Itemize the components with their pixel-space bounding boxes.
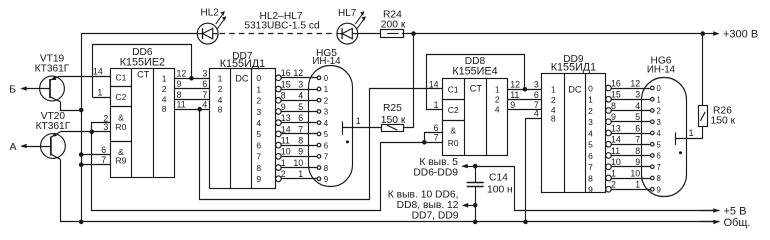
svg-text:1: 1 bbox=[635, 180, 640, 190]
svg-text:7: 7 bbox=[657, 163, 661, 172]
node bbox=[189, 76, 194, 81]
svg-text:0: 0 bbox=[588, 83, 593, 93]
svg-text:7: 7 bbox=[434, 133, 439, 143]
svg-text:1: 1 bbox=[689, 128, 694, 138]
svg-text:C14: C14 bbox=[489, 172, 508, 183]
svg-text:DC: DC bbox=[568, 85, 582, 95]
power +300 V bbox=[703, 33, 719, 35]
IC DD8 K155IE4 box bbox=[443, 79, 508, 156]
node bbox=[473, 220, 478, 225]
svg-text:DC: DC bbox=[235, 74, 249, 84]
svg-text:4: 4 bbox=[495, 105, 500, 115]
svg-text:5: 5 bbox=[657, 140, 662, 149]
HG6 anode bbox=[675, 132, 677, 145]
svg-text:R0: R0 bbox=[115, 122, 126, 132]
svg-text:7: 7 bbox=[256, 152, 261, 162]
svg-text:1: 1 bbox=[324, 85, 328, 94]
svg-text:12: 12 bbox=[293, 68, 303, 78]
svg-text:C2: C2 bbox=[448, 105, 459, 115]
transistor VT20 bbox=[41, 132, 66, 160]
node bbox=[523, 87, 528, 92]
wire VT20 emitter to DD6 R0 bbox=[60, 131, 110, 133]
svg-text:2: 2 bbox=[256, 96, 261, 106]
IC DD9 K155ID1 box bbox=[542, 74, 606, 193]
annotation to pin 5 DD6-DD9 bbox=[463, 166, 476, 168]
svg-text:3: 3 bbox=[657, 118, 661, 127]
svg-text:C2: C2 bbox=[115, 92, 126, 102]
svg-text:14: 14 bbox=[93, 67, 103, 77]
node +300V junction R26 bbox=[700, 31, 705, 36]
svg-text:4: 4 bbox=[218, 95, 223, 105]
svg-text:Б: Б bbox=[9, 83, 16, 95]
svg-text:3: 3 bbox=[635, 90, 640, 100]
svg-text:+300 В: +300 В bbox=[723, 28, 758, 40]
wire DD6 pin2 branch bbox=[92, 123, 111, 132]
svg-text:5: 5 bbox=[256, 129, 261, 139]
wire DD6 R9 pin7 bbox=[81, 164, 110, 166]
svg-text:6: 6 bbox=[256, 140, 261, 150]
svg-text:9: 9 bbox=[324, 175, 328, 184]
svg-text:16: 16 bbox=[611, 78, 621, 88]
wire DD8 outputs to DD9 inputs bbox=[508, 89, 541, 91]
svg-text:КТ361Г: КТ361Г bbox=[36, 121, 71, 132]
wire bbox=[402, 33, 703, 35]
svg-text:4: 4 bbox=[635, 101, 640, 111]
port B bbox=[22, 88, 51, 90]
svg-text:4: 4 bbox=[324, 119, 329, 128]
svg-text:8: 8 bbox=[162, 104, 167, 114]
nixie tube HG6 IN-14 envelope bbox=[642, 78, 687, 197]
svg-text:14: 14 bbox=[281, 124, 291, 134]
svg-text:9: 9 bbox=[298, 147, 303, 157]
svg-text:1: 1 bbox=[434, 100, 439, 110]
svg-text:3: 3 bbox=[202, 69, 207, 79]
svg-text:К155ИЕ2: К155ИЕ2 bbox=[120, 56, 165, 68]
svg-text:10: 10 bbox=[630, 168, 640, 178]
svg-text:А: А bbox=[9, 141, 16, 153]
node bbox=[197, 107, 202, 112]
nixie tube HG5 IN-14 envelope bbox=[309, 66, 353, 187]
node bbox=[523, 220, 528, 225]
svg-text:DD7, DD9: DD7, DD9 bbox=[412, 210, 459, 221]
svg-text:&: & bbox=[450, 126, 456, 136]
LED HL2 bbox=[197, 11, 226, 44]
wire VT19 collector bbox=[61, 102, 82, 111]
svg-text:7: 7 bbox=[298, 124, 303, 134]
HG6 decimal point cathode bbox=[679, 151, 682, 154]
svg-text:4: 4 bbox=[256, 118, 261, 128]
svg-text:14: 14 bbox=[611, 135, 621, 145]
svg-text:4: 4 bbox=[162, 95, 167, 105]
svg-text:4: 4 bbox=[588, 128, 593, 138]
svg-text:1: 1 bbox=[611, 168, 616, 178]
IC DD6 K155IE2 box bbox=[111, 69, 175, 178]
svg-text:8: 8 bbox=[551, 113, 556, 123]
wire VT20 collector to common bbox=[61, 159, 720, 221]
svg-text:3: 3 bbox=[256, 107, 261, 117]
svg-text:0: 0 bbox=[657, 84, 662, 93]
svg-text:К выв. 5: К выв. 5 bbox=[419, 157, 458, 168]
svg-text:6: 6 bbox=[298, 113, 303, 123]
svg-text:0: 0 bbox=[256, 73, 261, 83]
svg-text:1: 1 bbox=[218, 74, 223, 84]
svg-text:8: 8 bbox=[324, 164, 328, 173]
svg-text:5: 5 bbox=[635, 112, 640, 122]
svg-text:1: 1 bbox=[281, 158, 286, 168]
svg-text:2: 2 bbox=[495, 95, 500, 105]
svg-text:5313UBC-1.5 cd: 5313UBC-1.5 cd bbox=[244, 20, 320, 31]
svg-text:Общ.: Общ. bbox=[724, 217, 751, 229]
svg-text:К155ИЕ4: К155ИЕ4 bbox=[452, 66, 497, 78]
svg-text:7: 7 bbox=[588, 162, 593, 172]
svg-text:+5 В: +5 В bbox=[724, 205, 747, 217]
svg-text:6: 6 bbox=[534, 90, 539, 100]
svg-text:2: 2 bbox=[551, 95, 556, 105]
wire HG6 anode to R26 bbox=[702, 127, 704, 139]
wire R26 to +300 bbox=[702, 34, 704, 106]
svg-text:100 н: 100 н bbox=[487, 184, 513, 195]
svg-text:CT: CT bbox=[470, 84, 483, 94]
svg-text:12: 12 bbox=[630, 78, 640, 88]
svg-text:11: 11 bbox=[281, 136, 290, 146]
node +300V junction R24 bbox=[411, 31, 416, 36]
svg-text:2: 2 bbox=[218, 84, 223, 94]
wire (dashed HL2...HL7) bbox=[220, 33, 336, 35]
wire reset line to DD8 R0 bbox=[92, 132, 443, 211]
svg-text:1: 1 bbox=[588, 95, 593, 105]
svg-text:2: 2 bbox=[588, 106, 593, 116]
svg-text:1: 1 bbox=[657, 95, 661, 104]
svg-text:6: 6 bbox=[324, 141, 328, 150]
svg-text:9: 9 bbox=[281, 102, 286, 112]
svg-text:200 к: 200 к bbox=[381, 20, 406, 31]
svg-text:16: 16 bbox=[281, 68, 291, 78]
node bbox=[422, 140, 427, 145]
svg-text:1: 1 bbox=[162, 73, 167, 83]
wire bbox=[81, 33, 197, 35]
svg-text:6: 6 bbox=[657, 152, 661, 161]
svg-text:8: 8 bbox=[298, 136, 303, 146]
svg-text:8: 8 bbox=[635, 146, 640, 156]
power Obshch (common) arrow bbox=[700, 221, 719, 223]
svg-text:DD8, выв. 12: DD8, выв. 12 bbox=[397, 200, 459, 211]
svg-text:13: 13 bbox=[281, 113, 291, 123]
svg-text:4: 4 bbox=[202, 100, 207, 110]
svg-text:7: 7 bbox=[101, 155, 106, 165]
svg-text:1: 1 bbox=[356, 116, 361, 126]
annotation to pins 10/12 (ground pins) bbox=[463, 205, 475, 207]
wire carry DD6 pin11 to DD8 pin14 bbox=[200, 89, 443, 200]
svg-text:12: 12 bbox=[510, 80, 520, 90]
node bbox=[79, 220, 84, 225]
svg-text:10: 10 bbox=[611, 157, 621, 167]
wire DD8 pin6 stub bbox=[425, 133, 443, 143]
svg-text:8: 8 bbox=[657, 174, 661, 183]
svg-text:7: 7 bbox=[635, 135, 640, 145]
svg-text:13: 13 bbox=[611, 123, 621, 133]
power +5 V arrow bbox=[700, 210, 719, 212]
port A bbox=[22, 146, 51, 148]
svg-text:ИН-14: ИН-14 bbox=[312, 56, 341, 67]
svg-text:11: 11 bbox=[177, 100, 186, 110]
svg-text:4: 4 bbox=[298, 91, 303, 101]
svg-text:HL7: HL7 bbox=[338, 8, 357, 19]
svg-text:R25: R25 bbox=[383, 103, 402, 114]
svg-text:8: 8 bbox=[256, 163, 261, 173]
svg-text:10: 10 bbox=[293, 158, 303, 168]
svg-text:8: 8 bbox=[177, 90, 182, 100]
svg-text:7: 7 bbox=[324, 153, 328, 162]
svg-text:К выв. 10 DD6,: К выв. 10 DD6, bbox=[388, 189, 459, 200]
svg-text:9: 9 bbox=[588, 185, 593, 195]
svg-text:4: 4 bbox=[534, 109, 539, 119]
svg-text:C1: C1 bbox=[448, 84, 459, 94]
svg-text:11: 11 bbox=[510, 90, 519, 100]
svg-text:5: 5 bbox=[588, 140, 593, 150]
svg-text:10: 10 bbox=[281, 147, 291, 157]
svg-text:15: 15 bbox=[611, 90, 621, 100]
svg-text:14: 14 bbox=[429, 79, 439, 89]
svg-text:9: 9 bbox=[611, 112, 616, 122]
svg-text:9: 9 bbox=[510, 100, 515, 110]
svg-text:3: 3 bbox=[534, 80, 539, 90]
wire DD6 feedback loop out1 to C2 bbox=[93, 45, 192, 98]
svg-text:8: 8 bbox=[281, 91, 286, 101]
svg-text:6: 6 bbox=[434, 123, 439, 133]
capacitor C14 bbox=[475, 166, 477, 182]
IC DD7 K155ID1 box bbox=[210, 69, 276, 189]
svg-text:9: 9 bbox=[635, 157, 640, 167]
svg-text:12: 12 bbox=[177, 69, 187, 79]
wire bbox=[358, 33, 381, 35]
svg-text:0: 0 bbox=[324, 74, 329, 83]
svg-text:C1: C1 bbox=[115, 72, 126, 82]
svg-text:1: 1 bbox=[97, 87, 102, 97]
svg-text:R9: R9 bbox=[115, 156, 126, 166]
svg-text:R0: R0 bbox=[448, 138, 459, 148]
svg-text:1: 1 bbox=[256, 84, 261, 94]
svg-text:7: 7 bbox=[202, 90, 207, 100]
svg-text:DD6-DD9: DD6-DD9 bbox=[413, 168, 458, 179]
svg-text:8: 8 bbox=[611, 101, 616, 111]
wire R25 to +300 bbox=[403, 34, 413, 128]
node bbox=[79, 108, 84, 113]
svg-text:3: 3 bbox=[298, 79, 303, 89]
svg-text:4: 4 bbox=[657, 129, 662, 138]
resistor R24 bbox=[381, 30, 404, 38]
svg-text:6: 6 bbox=[588, 151, 593, 161]
svg-text:9: 9 bbox=[177, 79, 182, 89]
svg-text:9: 9 bbox=[657, 185, 661, 194]
svg-text:8: 8 bbox=[218, 105, 223, 115]
svg-text:15: 15 bbox=[281, 79, 291, 89]
svg-text:3: 3 bbox=[588, 117, 593, 127]
svg-text:К155ИД1: К155ИД1 bbox=[220, 58, 265, 70]
svg-text:3: 3 bbox=[324, 108, 328, 117]
svg-text:5: 5 bbox=[298, 102, 303, 112]
svg-text:3: 3 bbox=[103, 122, 108, 132]
svg-text:HL2: HL2 bbox=[201, 8, 220, 19]
wire DD8 feedback loop out1 to C2 bbox=[427, 55, 525, 110]
wire DD9 pin4 grounded bbox=[526, 119, 542, 222]
svg-text:2: 2 bbox=[611, 180, 616, 190]
LED HL7 bbox=[337, 11, 366, 44]
svg-text:2: 2 bbox=[162, 84, 167, 94]
svg-text:6: 6 bbox=[202, 79, 207, 89]
wire DD6 outputs to DD7 inputs bbox=[175, 78, 210, 80]
svg-text:ИН-14: ИН-14 bbox=[647, 65, 676, 76]
wire DD6 pin1 C2 bbox=[92, 97, 110, 99]
node bbox=[473, 203, 478, 208]
wire bbox=[81, 34, 83, 222]
node bbox=[90, 130, 95, 135]
svg-text:11: 11 bbox=[611, 146, 620, 156]
svg-text:К155ИД1: К155ИД1 bbox=[551, 61, 596, 73]
svg-text:CT: CT bbox=[137, 70, 150, 80]
svg-text:2: 2 bbox=[281, 169, 286, 179]
svg-text:КТ361Г: КТ361Г bbox=[35, 63, 70, 74]
svg-text:1: 1 bbox=[298, 169, 303, 179]
svg-text:1: 1 bbox=[495, 84, 500, 94]
svg-text:150 к: 150 к bbox=[381, 115, 406, 126]
node bbox=[473, 164, 478, 169]
svg-text:8: 8 bbox=[588, 173, 593, 183]
wire Vcc line C14 to +5V rail bbox=[475, 167, 719, 211]
svg-text:1: 1 bbox=[551, 85, 556, 95]
resistor R25 bbox=[382, 125, 404, 132]
svg-text:R24: R24 bbox=[383, 9, 402, 20]
transistor VT19 bbox=[40, 76, 65, 102]
svg-text:9: 9 bbox=[256, 174, 261, 184]
resistor R26 bbox=[699, 106, 708, 127]
wire DD6 R9 pin6 bbox=[81, 154, 110, 156]
svg-text:6: 6 bbox=[635, 123, 640, 133]
svg-text:6: 6 bbox=[101, 145, 106, 155]
svg-text:2: 2 bbox=[657, 107, 661, 116]
svg-text:2: 2 bbox=[324, 96, 328, 105]
HG5 anode bbox=[342, 122, 344, 135]
HG5 decimal point cathode bbox=[346, 140, 349, 143]
svg-text:150 к: 150 к bbox=[711, 116, 736, 127]
svg-text:5: 5 bbox=[324, 130, 329, 139]
wire VT19 emitter to DD6 C1 bbox=[60, 76, 111, 78]
